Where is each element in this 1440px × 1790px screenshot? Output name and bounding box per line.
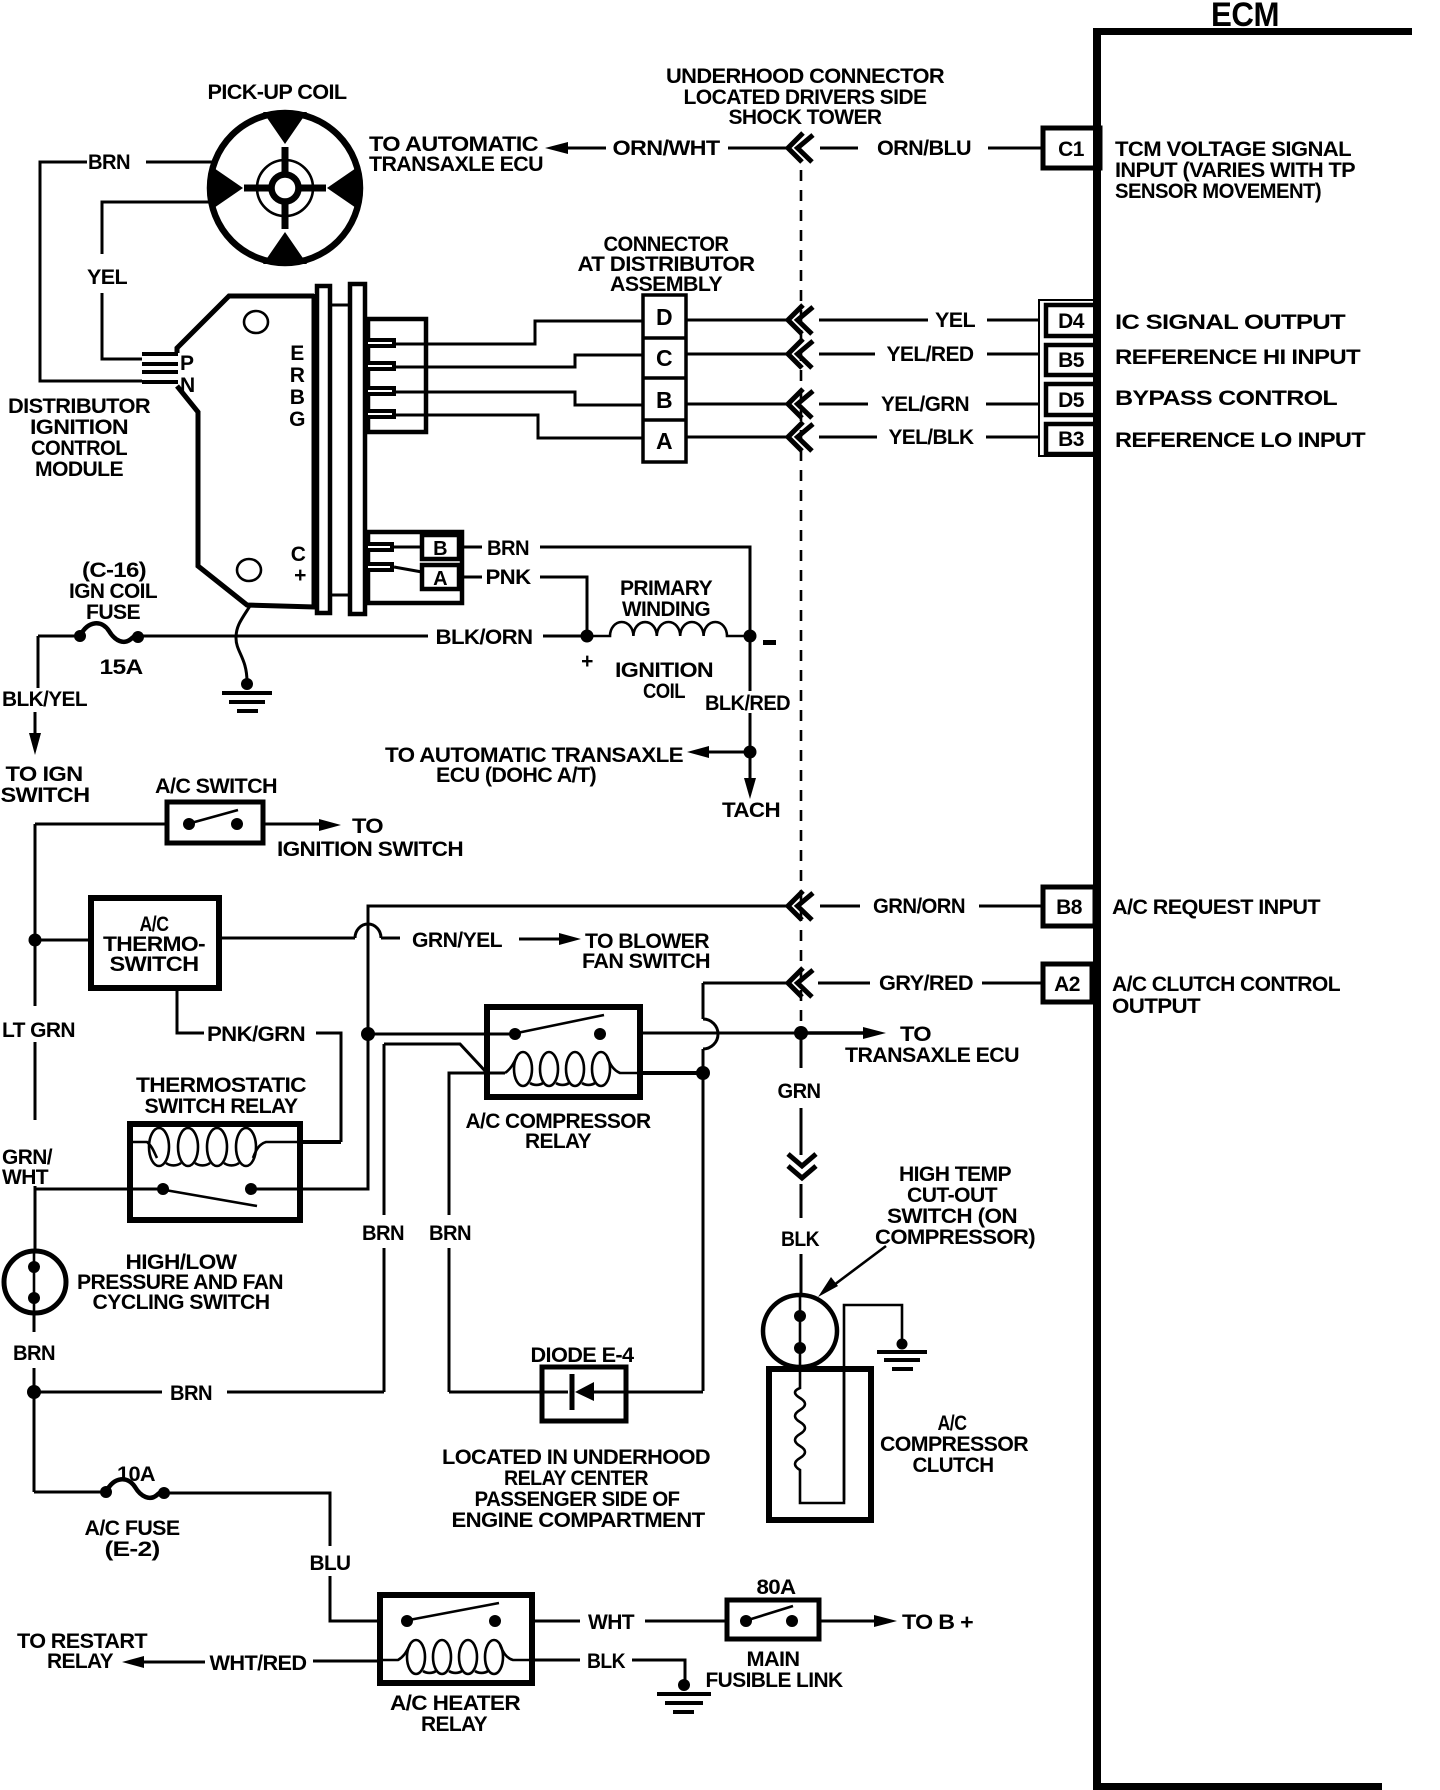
node coil to diode junction [696, 1066, 710, 1080]
A/C thermo-switch S2 [91, 898, 219, 988]
wire WHT [532, 1611, 725, 1634]
node thermo switch junction [29, 934, 42, 947]
svg-text:TCM VOLTAGE SIGNAL: TCM VOLTAGE SIGNAL [1115, 138, 1352, 161]
wire pin to B terminal [394, 546, 422, 549]
wire arrow to blower fan switch [519, 930, 710, 973]
svg-text:SWITCH (ON: SWITCH (ON [887, 1205, 1017, 1228]
arrow from label to switch [818, 1246, 886, 1297]
label main fusible link [706, 1648, 843, 1692]
connector chevron (YEL/BLK) [788, 422, 813, 451]
connector chevron (GRN/ORN) [788, 891, 813, 920]
module pin letters C + [291, 543, 306, 587]
connector at distributor assembly (cells D C B A) [643, 295, 686, 462]
svg-text:PICK-UP COIL: PICK-UP COIL [208, 81, 348, 104]
svg-text:SWITCH: SWITCH [110, 953, 199, 976]
wire to tach with arrow [722, 752, 780, 822]
svg-text:DISTRIBUTOR: DISTRIBUTOR [8, 395, 150, 418]
label connector at distributor assembly [578, 233, 755, 296]
svg-text:(E-2): (E-2) [105, 1538, 160, 1561]
label primary winding [620, 577, 713, 621]
svg-text:BLU: BLU [310, 1552, 351, 1575]
connector chevron (YEL/GRN) [788, 389, 813, 418]
wire BLK to ground [532, 1650, 685, 1682]
wire GRN/YEL with hop [219, 924, 503, 952]
wire BLK/ORN [138, 626, 587, 649]
module pin C (lower 1) [368, 542, 394, 552]
svg-text:IGNITION: IGNITION [30, 416, 128, 439]
label located in underhood relay center [442, 1446, 710, 1532]
svg-text:A/C FUSE: A/C FUSE [85, 1517, 181, 1540]
svg-text:ENGINE COMPARTMENT: ENGINE COMPARTMENT [452, 1509, 706, 1532]
svg-text:MODULE: MODULE [35, 458, 124, 481]
wire ign bus to A/C switch [35, 823, 167, 826]
svg-text:IGNITION SWITCH: IGNITION SWITCH [277, 838, 463, 861]
svg-text:DIODE E-4: DIODE E-4 [531, 1344, 635, 1367]
wire YEL/BLK (A to B3) [686, 426, 1040, 449]
module pins P and N [142, 352, 195, 397]
label to restart relay [17, 1630, 148, 1673]
svg-text:LT GRN: LT GRN [2, 1019, 75, 1042]
svg-text:A2: A2 [1054, 973, 1080, 996]
connector chevron (YEL/RED) [788, 339, 813, 368]
label A/C compressor relay [466, 1110, 651, 1153]
wire bus to thermo-switch [35, 939, 90, 942]
upper pin housing block [368, 319, 426, 432]
wire BLK to high temp switch [781, 1184, 819, 1296]
svg-text:PRIMARY: PRIMARY [620, 577, 713, 600]
wire BRN 1 vertical [362, 1044, 404, 1392]
wire BRN (pick-up coil to module N) [40, 151, 212, 381]
node compressor relay switch junction [361, 1027, 375, 1041]
distributor housing bar (right) [350, 284, 365, 614]
clutch inner frame [800, 1369, 844, 1503]
svg-text:RELAY CENTER: RELAY CENTER [504, 1467, 648, 1490]
svg-text:+: + [581, 650, 593, 673]
module ground wire [236, 606, 250, 682]
node tach junction [744, 746, 757, 759]
svg-text:ECU (DOHC A/T): ECU (DOHC A/T) [436, 764, 596, 787]
svg-text:B: B [656, 387, 672, 413]
svg-text:E: E [290, 342, 304, 365]
wire arrow to transaxle ecu [801, 1023, 1019, 1067]
wire A/C switch to ignition switch (arrow) [263, 815, 463, 861]
svg-text:COIL: COIL [643, 680, 686, 703]
svg-text:TO: TO [900, 1023, 931, 1046]
svg-text:TO: TO [352, 815, 383, 838]
module output pin 1 [368, 338, 396, 348]
svg-text:(C-16): (C-16) [82, 559, 146, 582]
wire PNK (terminal A to coil positive) [459, 566, 587, 630]
wire PNK/GRN [177, 988, 341, 1142]
svg-text:ASSEMBLY: ASSEMBLY [610, 273, 723, 296]
svg-text:PNK: PNK [486, 566, 531, 589]
svg-text:INPUT (VARIES WITH TP: INPUT (VARIES WITH TP [1115, 159, 1356, 182]
wire module pin1 to connector D [396, 321, 643, 344]
label distributor ignition control module [8, 395, 150, 481]
svg-text:RELAY: RELAY [47, 1650, 114, 1673]
wire diode right vertical [702, 1073, 705, 1391]
wire module pin2 to connector C [396, 355, 643, 367]
connector chevron (YEL) [788, 305, 813, 334]
wire YEL (D to D4) [686, 309, 1040, 332]
svg-text:IC SIGNAL OUTPUT: IC SIGNAL OUTPUT [1115, 311, 1346, 334]
svg-text:HIGH TEMP: HIGH TEMP [899, 1163, 1012, 1186]
wire compressor relay coil to GRY/RED junction [640, 1071, 703, 1075]
node A/C clutch control output [1112, 973, 1341, 1018]
connector chevron down (GRN to BLK) [788, 1154, 816, 1178]
svg-text:YEL: YEL [935, 309, 976, 332]
wire BRN below pressure switch [13, 1312, 55, 1392]
svg-text:UNDERHOOD CONNECTOR: UNDERHOOD CONNECTOR [666, 65, 944, 88]
svg-text:C1: C1 [1058, 138, 1085, 161]
svg-text:YEL: YEL [87, 266, 128, 289]
svg-text:D4: D4 [1058, 310, 1085, 333]
svg-text:BLK: BLK [587, 1650, 625, 1673]
label to automatic transaxle ecu (top) [369, 133, 543, 176]
svg-text:BRN: BRN [429, 1222, 471, 1245]
lower pin housing block [368, 532, 462, 603]
svg-text:YEL/RED: YEL/RED [887, 343, 974, 366]
wire thermostatic relay switch to GRN/ORN bus [251, 1031, 368, 1189]
wire switch to ground (clutch) [844, 1305, 902, 1500]
node coil positive junction [581, 630, 594, 643]
svg-text:IGNITION: IGNITION [615, 659, 713, 682]
svg-text:A/C CLUTCH CONTROL: A/C CLUTCH CONTROL [1112, 973, 1341, 996]
svg-text:N: N [180, 374, 195, 397]
svg-text:BRN: BRN [362, 1222, 404, 1245]
connector D5 [1046, 384, 1096, 415]
svg-text:MAIN: MAIN [747, 1648, 800, 1671]
svg-text:LOCATED IN UNDERHOOD: LOCATED IN UNDERHOOD [442, 1446, 710, 1469]
svg-text:SHOCK TOWER: SHOCK TOWER [729, 106, 882, 129]
svg-text:COMPRESSOR): COMPRESSOR) [875, 1226, 1035, 1249]
svg-text:SWITCH: SWITCH [1, 784, 90, 807]
wire thermostatic relay coil feed (PNK/GRN lead) [300, 1140, 341, 1144]
ground (compressor) [877, 1339, 927, 1370]
svg-text:BRN: BRN [13, 1342, 55, 1365]
svg-text:WHT: WHT [2, 1166, 49, 1189]
label high temp cut-out switch [875, 1163, 1035, 1249]
label A/C heater relay [390, 1692, 520, 1736]
ground (heater relay) [657, 1679, 711, 1712]
wire WHT/RED to restart relay [122, 1652, 380, 1675]
svg-text:FUSIBLE LINK: FUSIBLE LINK [706, 1669, 843, 1692]
module mounting hole (bottom) [237, 559, 261, 581]
svg-text:A: A [433, 568, 447, 590]
svg-text:RELAY: RELAY [525, 1130, 592, 1153]
label high/low pressure and fan cycling switch [77, 1251, 283, 1314]
connector A2 [1043, 964, 1092, 1002]
svg-text:A: A [656, 428, 672, 454]
label A/C compressor clutch [880, 1412, 1028, 1477]
svg-text:B3: B3 [1058, 428, 1084, 451]
svg-text:A/C HEATER: A/C HEATER [390, 1692, 520, 1715]
connector D4 [1046, 305, 1096, 336]
wire BLK/RED [705, 636, 790, 747]
wire YEL/RED (C to B5) [686, 343, 1040, 366]
svg-text:CLUTCH: CLUTCH [913, 1454, 994, 1477]
main fusible link F1 [727, 1600, 819, 1639]
svg-text:BRN: BRN [487, 537, 529, 560]
label underhood connector note [666, 65, 944, 129]
housing bar links [330, 305, 350, 595]
svg-text:A/C REQUEST INPUT: A/C REQUEST INPUT [1112, 896, 1321, 919]
svg-text:A/C SWITCH: A/C SWITCH [155, 775, 277, 798]
connector chevron (GRY/RED) [788, 968, 813, 997]
wire YEL (pick-up coil to module P) [87, 202, 209, 359]
svg-text:WINDING: WINDING [622, 598, 710, 621]
wire GRN down from junction [778, 1033, 821, 1155]
svg-text:15A: 15A [100, 656, 143, 679]
svg-text:10A: 10A [117, 1463, 155, 1486]
svg-text:IGN COIL: IGN COIL [69, 580, 158, 603]
svg-text:80A: 80A [757, 1576, 796, 1599]
svg-text:CYCLING SWITCH: CYCLING SWITCH [93, 1291, 270, 1314]
fuse C-16 15A [38, 623, 144, 679]
svg-text:BLK/YEL: BLK/YEL [2, 688, 88, 711]
svg-text:TRANSAXLE ECU: TRANSAXLE ECU [369, 153, 543, 176]
svg-text:PNK/GRN: PNK/GRN [207, 1023, 305, 1046]
svg-text:COMPRESSOR: COMPRESSOR [880, 1433, 1028, 1456]
svg-text:C: C [291, 543, 306, 566]
wire YEL/GRN (B to D5) [686, 393, 1040, 416]
wire GRY/RED vertical with hop over switch wire [703, 983, 718, 1073]
svg-text:WHT/RED: WHT/RED [210, 1652, 307, 1675]
svg-text:BRN: BRN [88, 151, 130, 174]
wire pin to A terminal [394, 567, 422, 572]
distributor ignition control module body [177, 294, 315, 609]
node transaxle branch junction [794, 1026, 808, 1040]
high temp cut-out switch S3 [763, 1295, 837, 1367]
module pin letters E R B G [289, 342, 305, 431]
wire BRN 1 branch to relay coil [384, 1044, 487, 1073]
wire BRN 2 from relay coil [449, 1073, 505, 1215]
wire module pin4 to connector A [396, 415, 643, 438]
svg-text:THERMOSTATIC: THERMOSTATIC [136, 1074, 306, 1097]
wire ORN/WHT with arrow [545, 137, 789, 160]
connector chevron (underhood, ORN wire) [788, 133, 813, 162]
node C1 description [1115, 138, 1356, 203]
svg-text:D5: D5 [1058, 389, 1085, 412]
ECM module outline U1 [1093, 0, 1412, 1790]
svg-text:R: R [290, 364, 305, 387]
label - terminal [763, 640, 776, 645]
label ignition coil [615, 659, 713, 703]
svg-text:BYPASS CONTROL: BYPASS CONTROL [1115, 387, 1338, 410]
svg-text:BLK/RED: BLK/RED [705, 692, 790, 715]
svg-text:RELAY: RELAY [421, 1713, 488, 1736]
wire LT GRN left bus [2, 824, 75, 1120]
wire ORN/BLU to C1 [820, 137, 1043, 160]
svg-text:SENSOR MOVEMENT): SENSOR MOVEMENT) [1115, 180, 1321, 203]
label A/C FUSE (E-2) [85, 1517, 181, 1561]
module pin + (lower 2) [368, 562, 394, 572]
pick-up coil [210, 112, 360, 264]
clutch coil winding [795, 1366, 805, 1479]
svg-text:TO IGN: TO IGN [6, 763, 83, 786]
svg-text:C: C [656, 345, 672, 371]
module output pin 2 [368, 361, 396, 371]
svg-text:REFERENCE HI INPUT: REFERENCE HI INPUT [1115, 346, 1361, 369]
diode E-4 [449, 1367, 703, 1421]
thermostatic switch relay K1 [130, 1124, 300, 1220]
svg-text:B8: B8 [1056, 896, 1083, 919]
wire BRN (terminal B to coil negative) [459, 537, 750, 630]
svg-text:YEL/BLK: YEL/BLK [889, 426, 974, 449]
svg-text:B: B [290, 386, 305, 409]
svg-text:SWITCH RELAY: SWITCH RELAY [145, 1095, 299, 1118]
wire to automatic transaxle ecu (dohc) [385, 744, 750, 787]
wire junction to compressor relay switch [368, 1033, 515, 1036]
module output pin 4 [368, 409, 396, 419]
ECM connector group outline [1039, 300, 1100, 456]
svg-text:A/C: A/C [938, 1412, 967, 1435]
A/C compressor relay K2 [487, 1007, 640, 1097]
wire BRN horizontal [34, 1382, 384, 1405]
wire BRN 2 vertical [429, 1222, 471, 1392]
svg-text:G: G [289, 408, 305, 431]
label (C-16) IGN COIL FUSE [69, 559, 158, 624]
svg-text:GRY/RED: GRY/RED [879, 972, 973, 995]
svg-text:+: + [294, 564, 306, 587]
connector B5 [1046, 345, 1096, 375]
svg-text:FAN SWITCH: FAN SWITCH [582, 950, 710, 973]
connector C1 [1043, 128, 1100, 168]
svg-text:GRN/ORN: GRN/ORN [873, 895, 965, 918]
distributor housing bar (left) [317, 286, 330, 613]
fuse A/C 10A [34, 1479, 170, 1499]
high/low pressure and fan cycling switch S4 [4, 1251, 66, 1313]
svg-text:P: P [180, 352, 194, 375]
A/C switch S1 [167, 802, 263, 843]
wire BLU [164, 1493, 380, 1621]
terminal A box [422, 565, 459, 590]
svg-text:B5: B5 [1058, 349, 1085, 372]
A/C heater relay K3 [380, 1595, 532, 1683]
svg-text:TACH: TACH [722, 799, 780, 822]
svg-text:WHT: WHT [588, 1611, 635, 1634]
svg-text:ORN/WHT: ORN/WHT [613, 137, 721, 160]
node coil negative junction [744, 630, 757, 643]
connector B3 [1046, 424, 1096, 454]
wire module pin3 to connector B [396, 392, 643, 405]
svg-text:CUT-OUT: CUT-OUT [907, 1184, 998, 1207]
svg-text:GRN: GRN [778, 1080, 821, 1103]
module mounting hole (top) [244, 311, 268, 333]
terminal B box [422, 535, 459, 560]
dashed connector boundary line [800, 170, 803, 1028]
svg-text:OUTPUT: OUTPUT [1112, 995, 1201, 1018]
wire BLK/YEL to ignition switch [1, 636, 90, 807]
svg-text:BRN: BRN [170, 1382, 212, 1405]
module output pin 3 [368, 386, 396, 396]
svg-text:PASSENGER SIDE OF: PASSENGER SIDE OF [475, 1488, 681, 1511]
wire GRY/RED (A/C clutch control) [703, 972, 1043, 995]
label thermostatic switch relay [136, 1074, 306, 1118]
svg-text:TO B +: TO B + [902, 1611, 973, 1634]
connector B8 [1043, 887, 1095, 926]
wire GRN/ORN (A/C request) [368, 895, 1043, 1031]
svg-text:TRANSAXLE ECU: TRANSAXLE ECU [845, 1044, 1019, 1067]
wire to B+ with arrow [819, 1611, 973, 1634]
wire GRN/WHT [2, 1146, 163, 1253]
wire bus down to A/C fuse [33, 1392, 36, 1492]
A/C compressor clutch body [769, 1369, 871, 1520]
wire compressor relay switch to transaxle ecu [640, 1032, 801, 1035]
node BRN bus junction [27, 1385, 41, 1399]
svg-text:YEL/GRN: YEL/GRN [881, 393, 969, 416]
svg-text:REFERENCE LO INPUT: REFERENCE LO INPUT [1115, 429, 1366, 452]
svg-text:CONTROL: CONTROL [31, 437, 128, 460]
svg-text:D: D [656, 304, 672, 330]
svg-text:FUSE: FUSE [86, 601, 141, 624]
ignition coil primary winding L1 [587, 622, 750, 636]
svg-text:B: B [433, 538, 447, 560]
svg-text:ORN/BLU: ORN/BLU [877, 137, 971, 160]
ground (module) [222, 678, 272, 711]
svg-text:BLK/ORN: BLK/ORN [436, 626, 533, 649]
svg-text:BLK: BLK [781, 1228, 819, 1251]
svg-text:GRN/YEL: GRN/YEL [412, 929, 503, 952]
